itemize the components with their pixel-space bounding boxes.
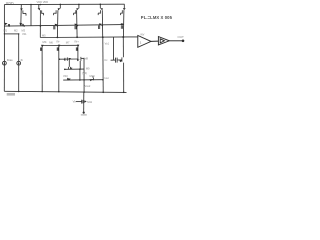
- svg-text:M1: M1: [4, 29, 8, 33]
- svg-text:IN-: IN-: [57, 39, 61, 43]
- svg-text:M11: M11: [87, 100, 92, 104]
- svg-text:IN+: IN+: [75, 39, 80, 43]
- svg-text:Vo1: Vo1: [105, 41, 110, 45]
- svg-text:M10: M10: [90, 74, 96, 78]
- svg-text:M4: M4: [43, 40, 47, 44]
- svg-text:Vss2: Vss2: [85, 84, 91, 88]
- svg-text:M2: M2: [14, 29, 18, 33]
- svg-text:VDD: VDD: [6, 1, 14, 5]
- svg-text:M8: M8: [84, 56, 88, 60]
- svg-text:M5: M5: [42, 33, 46, 37]
- svg-text:OUT: OUT: [178, 35, 185, 39]
- svg-text:Ibias: Ibias: [7, 58, 14, 62]
- svg-text:M6: M6: [49, 40, 53, 44]
- svg-text:Vb: Vb: [73, 99, 77, 103]
- svg-text:INV: INV: [140, 34, 144, 37]
- svg-text:VDD VDD: VDD VDD: [37, 0, 49, 4]
- svg-text:M9: M9: [86, 66, 90, 70]
- svg-text:PL.=LMX X 005: PL.=LMX X 005: [141, 15, 173, 20]
- svg-text:Iout: Iout: [105, 76, 110, 80]
- svg-text:(Vb): (Vb): [82, 71, 87, 75]
- svg-text:Vb3: Vb3: [63, 74, 68, 78]
- svg-text:M7: M7: [66, 40, 70, 44]
- svg-text:M3: M3: [22, 29, 26, 33]
- svg-text:Vb1: Vb1: [22, 32, 27, 36]
